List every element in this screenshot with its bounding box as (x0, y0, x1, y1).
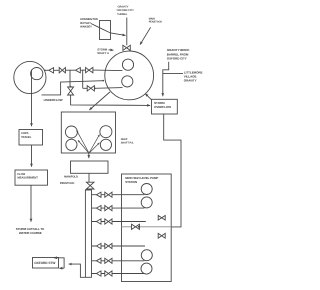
wire: suction to P6 (90, 143, 100, 153)
wire: channel bottom run to Oxford STW (69, 264, 86, 277)
svg-text:KENNINGTON: KENNINGTON (80, 18, 98, 21)
svg-text:OXFORD STW: OXFORD STW (34, 261, 55, 265)
pump P8 (141, 197, 152, 208)
valve: main penstock bowtie (123, 45, 130, 50)
penstock valve PV2 (vertical bowtie) (86, 182, 94, 189)
label STORM SHAFT A (97, 47, 109, 55)
branch 1: check valve (96, 192, 101, 197)
wire: rising main leader through chamber (91, 24, 126, 36)
wire: into pump P1 (93, 69, 123, 72)
pump P2 in main shaft (122, 76, 133, 87)
box: Kennington rising main chamber (100, 21, 111, 40)
label LITTLEMORE VILLAGE GRAVITY (184, 70, 203, 82)
label MAIN PENSTOCK (149, 18, 163, 24)
check valve CV1 (49, 68, 54, 73)
gate valve GV6 (158, 233, 165, 238)
svg-text:COPA: COPA (21, 132, 28, 135)
vessel: main shaft (large circle) (105, 51, 154, 100)
wire: discharge into manifold (88, 153, 90, 158)
box: COPA travelling screen (19, 130, 43, 146)
label GRAVITY BRICK BARREL FROM OXFORD CITY (167, 48, 191, 60)
gate valve GV4 (bypass) (132, 224, 140, 229)
node: dot after GV4 (138, 226, 140, 228)
wire: suction to P4 (78, 140, 88, 152)
wire: node B drop (82, 70, 84, 88)
wire: outlet to check valve (45, 69, 49, 71)
svg-text:STATION: STATION (125, 180, 137, 184)
gate valve GV5 (158, 216, 165, 221)
penstock valve PV1 (vertical bowtie) (68, 87, 74, 95)
branch 2: wire (92, 207, 145, 209)
wire: node A segment (65, 69, 75, 71)
wire: main penstock leader (140, 27, 151, 44)
svg-text:GRAVITY: GRAVITY (184, 79, 197, 83)
box: manifold (71, 161, 109, 173)
gate valve GV3 (87, 86, 94, 91)
gate valve GV2 (86, 67, 93, 72)
node: penstock top dot (70, 86, 72, 88)
wire: suction to P3 (77, 130, 89, 152)
branch 6: wire (92, 273, 145, 275)
branch 6: check valve (96, 271, 101, 276)
pump P7 (141, 184, 152, 195)
box: OXFORD STW (33, 258, 59, 269)
diagonal: main shaft to deep shaft suction (89, 92, 110, 110)
svg-text:TRAVEL: TRAVEL (21, 136, 32, 139)
wire: storm bypass inside pump station (122, 226, 172, 228)
pump P10 (141, 263, 152, 274)
channel: suction well (85, 190, 91, 277)
wire: Oxford STW split bracket (54, 258, 64, 268)
box: storm overflow (152, 99, 178, 114)
wire: drop to storm overflow run (71, 95, 151, 105)
svg-text:PENSTOCK: PENSTOCK (149, 21, 163, 24)
gate valve GV1 (59, 68, 65, 73)
pump P5 (100, 126, 112, 138)
box: flow measurement (15, 170, 48, 185)
svg-text:HINKSEY: HINKSEY (80, 26, 92, 29)
svg-text:GRAVITY: GRAVITY (118, 6, 129, 9)
label STORM OUTFALL TO WATER COURSE (16, 227, 45, 235)
wire (83, 87, 88, 89)
node: dot after GV3 (94, 88, 96, 90)
wire: manifold drop (88, 173, 90, 182)
pump P3 (65, 126, 77, 138)
branch 3: gate valve (105, 219, 112, 224)
branch 1: gate valve (105, 192, 112, 197)
svg-text:OXFORD CITY: OXFORD CITY (117, 9, 134, 12)
pump P1 in main shaft (122, 59, 133, 70)
svg-text:OXFORD CITY: OXFORD CITY (167, 57, 187, 61)
svg-text:WATER COURSE: WATER COURSE (19, 231, 42, 235)
branch 3: wire (92, 221, 146, 223)
pump P4 (66, 139, 77, 150)
label DEEP SHAFT P.S. (121, 138, 134, 145)
branch 4: gate valve (105, 243, 112, 248)
label KENNINGTON BOTLEY HINKSEY (80, 18, 98, 29)
diagonal: storm overflow to main shaft (145, 94, 151, 100)
svg-text:MEASUREMENT: MEASUREMENT (17, 176, 38, 179)
branch 4: wire (92, 245, 146, 247)
pump P6 (100, 139, 111, 150)
svg-text:DEEP: DEEP (121, 138, 128, 141)
pump: old station pump (inner circle) (31, 68, 43, 80)
label GRAVITY OXFORD CITY TUNNEL (117, 6, 134, 16)
wire: bracket lower arm (59, 267, 64, 269)
node: junction at main shaft wall (102, 80, 104, 82)
check valve CV2 (76, 68, 81, 73)
box: deep shaft pump station (61, 112, 115, 153)
svg-text:MANIFOLD: MANIFOLD (64, 175, 78, 178)
node: junction on old station outlet (44, 70, 46, 72)
wire: screen to flow measurement (31, 145, 33, 167)
wire: storm outfall arrow (30, 185, 32, 222)
wire (54, 69, 60, 71)
branch 1: wire (92, 194, 145, 196)
svg-text:BOTLEY: BOTLEY (80, 22, 91, 25)
branch 3: check valve (96, 219, 101, 224)
pump P9 (141, 250, 152, 261)
svg-text:SHAFT A: SHAFT A (97, 51, 109, 55)
branch 5: gate valve (105, 258, 112, 263)
branch 5: wire (92, 260, 145, 262)
vessel: old pump station (left circle) (14, 61, 46, 93)
box: new high level pump station (122, 174, 172, 282)
svg-text:UNDERFLOW: UNDERFLOW (44, 98, 64, 102)
branch 2: check valve (96, 206, 101, 211)
wire: storm overflow down to pump station (164, 114, 181, 227)
wire: old station main drop (31, 70, 33, 127)
wire: into pump P2 (94, 87, 122, 90)
svg-text:PENSTOCK: PENSTOCK (60, 182, 75, 185)
wire: tunnel drop to main penstock (126, 18, 128, 46)
wire: node B segment (80, 69, 85, 71)
wire: suction to P5 (89, 134, 99, 152)
svg-text:SHAFT P.S.: SHAFT P.S. (121, 142, 134, 145)
branch 6: gate valve (105, 271, 112, 276)
branch 2: gate valve (105, 206, 112, 211)
svg-text:TUNNEL: TUNNEL (117, 13, 128, 16)
svg-text:OVERFLOW: OVERFLOW (154, 105, 171, 109)
wire: gravity barrel down to storm overflow (163, 62, 169, 96)
wire: Littlemore leader (163, 73, 183, 75)
branch 5: check valve (96, 258, 101, 263)
wire: storm shaft leader arrow (109, 49, 114, 51)
wire: underflow branch from old station (42, 81, 104, 95)
wire: node A drop (69, 70, 71, 87)
branch 4: check valve (96, 243, 101, 248)
